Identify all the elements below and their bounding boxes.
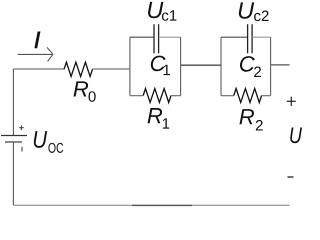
capacitor C2	[248, 24, 253, 53]
wire: C2/R2 right vertical	[270, 37, 272, 95]
wire: R1 bottom-right segment	[171, 95, 181, 97]
wire: left vertical upper	[12, 69, 14, 135]
capacitor C1	[154, 24, 159, 53]
label R0	[74, 81, 96, 101]
resistor R0	[64, 62, 93, 76]
wire: C2/R2 left vertical	[220, 37, 222, 95]
wire: C2 top-right segment	[252, 36, 271, 38]
resistor R2	[234, 89, 262, 103]
label C2	[240, 56, 261, 77]
label U_OC	[34, 131, 63, 153]
label - (battery tick)	[21, 147, 23, 152]
wire: C1 top-right segment	[159, 36, 181, 38]
wire: R2 bottom-left segment	[221, 95, 234, 97]
wire R0 to C1 network	[93, 68, 130, 70]
wire: bottom rail darker overlap segment	[132, 204, 192, 206]
wire to positive output terminal	[271, 64, 290, 66]
wire: C1 top-left segment	[130, 36, 154, 38]
wire: R1 bottom-left segment	[130, 95, 143, 97]
resistor R1	[143, 89, 171, 103]
wire: bottom rail	[13, 204, 289, 206]
label U_c1	[148, 2, 176, 21]
label U_c2	[239, 2, 269, 21]
label R2	[239, 109, 262, 130]
wire: C1/R1 left vertical	[129, 37, 131, 95]
wire top-left	[13, 68, 64, 70]
current arrow	[18, 47, 53, 61]
label + (battery)	[19, 126, 24, 131]
label C1	[151, 56, 170, 75]
label R1	[148, 108, 170, 129]
wire: C1/R1 right vertical	[180, 37, 182, 95]
label U (output)	[290, 128, 302, 144]
wire: R2 bottom-right segment	[262, 95, 271, 97]
label - (output)	[288, 176, 294, 178]
label I	[35, 32, 40, 48]
battery U_OC bottom plate	[5, 141, 22, 143]
battery U_OC top plate	[1, 135, 27, 137]
wire between RC networks	[181, 64, 221, 66]
wire: left vertical lower	[12, 142, 14, 205]
label + (output)	[287, 97, 296, 106]
wire: C2 top-left segment	[221, 36, 248, 38]
